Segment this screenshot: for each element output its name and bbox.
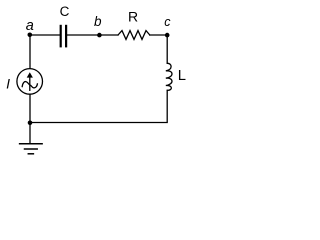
ground bar 2 (25, 148, 38, 150)
current source arrow head (27, 72, 33, 77)
ground bar 3 (28, 153, 33, 155)
wire source to bottom junction and ground stub (29, 95, 31, 144)
svg-text:L: L (178, 68, 186, 84)
node a dot (28, 33, 33, 38)
inductor L coil (166, 63, 172, 90)
wire capacitor to resistor (through node b) (67, 34, 118, 36)
svg-text:a: a (26, 18, 34, 34)
capacitor C1 left plate (60, 26, 62, 46)
ground bar 1 (20, 143, 42, 145)
wire inductor down and bottom rail to junction (30, 90, 167, 122)
junction dot bottom-left (28, 121, 33, 126)
current source sine tilde (22, 82, 37, 88)
wire top-left: node a to capacitor (30, 34, 60, 36)
wire node c down to inductor (166, 35, 168, 63)
svg-text:C: C (60, 4, 70, 19)
node c dot (165, 33, 170, 38)
wire node a down to source (29, 35, 31, 68)
resistor R zigzag (118, 31, 150, 40)
current source arrow shaft (29, 77, 31, 90)
svg-text:I: I (6, 76, 10, 92)
svg-text:c: c (164, 15, 171, 29)
node b dot (97, 33, 102, 38)
svg-text:b: b (94, 14, 102, 29)
wire resistor to node c (150, 34, 167, 36)
svg-text:R: R (128, 8, 138, 24)
capacitor C1 right plate (65, 26, 67, 46)
current source I circle (17, 69, 43, 95)
